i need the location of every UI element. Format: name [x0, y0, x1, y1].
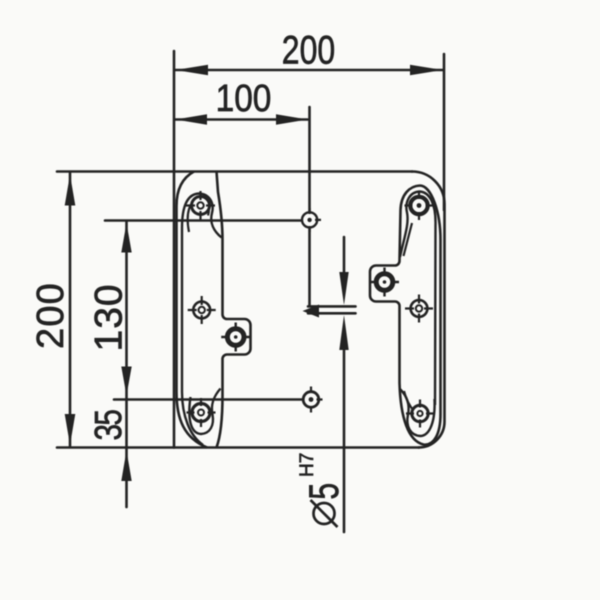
svg-text:200: 200	[30, 282, 72, 349]
right slot bottom tail	[404, 391, 414, 411]
plate left edge with top extension line	[173, 51, 176, 448]
arrowhead dia5 lower	[339, 315, 348, 350]
dimension text dia 5 H7	[297, 453, 347, 527]
arrowhead 200 left top	[65, 175, 76, 206]
hole right slot notch	[370, 268, 399, 297]
dimension line 100	[175, 118, 308, 121]
extension line top hole row	[105, 219, 301, 222]
arrowhead 130 top	[121, 223, 131, 253]
arrowhead 130 bottom	[121, 367, 131, 396]
hole right slot top	[405, 191, 434, 220]
plate top edge with left extension line	[57, 170, 412, 173]
svg-text:5: 5	[300, 483, 347, 500]
svg-text:100: 100	[216, 77, 272, 119]
right slot bottom teardrop	[400, 389, 435, 436]
left slot inner line	[182, 194, 222, 446]
left slot outer outline left side	[177, 172, 208, 448]
hole left slot middle	[188, 296, 216, 324]
arrowhead small left	[303, 305, 320, 318]
dimension line 200 top	[175, 69, 443, 72]
arrowhead 100 right	[276, 114, 308, 124]
left slot bottom teardrop	[189, 389, 220, 435]
arrowhead 200 left bottom	[65, 414, 76, 445]
dimension line 130 and 35	[125, 222, 128, 507]
hole right slot bottom	[406, 400, 434, 428]
svg-text:130: 130	[88, 283, 131, 351]
extension line bottom hole row	[114, 398, 303, 401]
arrowhead 200 top right	[410, 65, 443, 75]
right slot outer outline	[370, 186, 441, 445]
svg-text:H7: H7	[297, 453, 318, 477]
svg-text:35: 35	[88, 410, 130, 441]
plate right edge with rounded corners	[412, 172, 445, 448]
leader line for hole diameter	[343, 237, 346, 281]
arrowhead 200 top left	[176, 65, 209, 75]
plate bottom edge with extension lines	[57, 446, 419, 449]
centerline through top hole	[308, 107, 311, 306]
hole left slot notch	[221, 323, 250, 352]
arrowhead 35 below	[121, 451, 131, 482]
right slot inner line	[400, 192, 436, 406]
right slot top tail	[404, 223, 413, 256]
hole left slot bottom	[187, 398, 216, 427]
hole left slot top	[186, 191, 215, 220]
hole bottom center	[303, 387, 322, 413]
arrowhead dia5 upper	[339, 272, 348, 305]
hole right slot middle	[405, 295, 433, 323]
arrowhead 100 left	[176, 114, 208, 124]
left slot top inner arc	[188, 200, 209, 233]
hole top center	[302, 208, 321, 232]
right extension line	[443, 54, 446, 210]
small slot feature lines	[308, 305, 356, 308]
dimension line 200 left	[69, 173, 72, 446]
svg-text:200: 200	[282, 27, 335, 72]
left slot right side with notch	[217, 172, 251, 448]
